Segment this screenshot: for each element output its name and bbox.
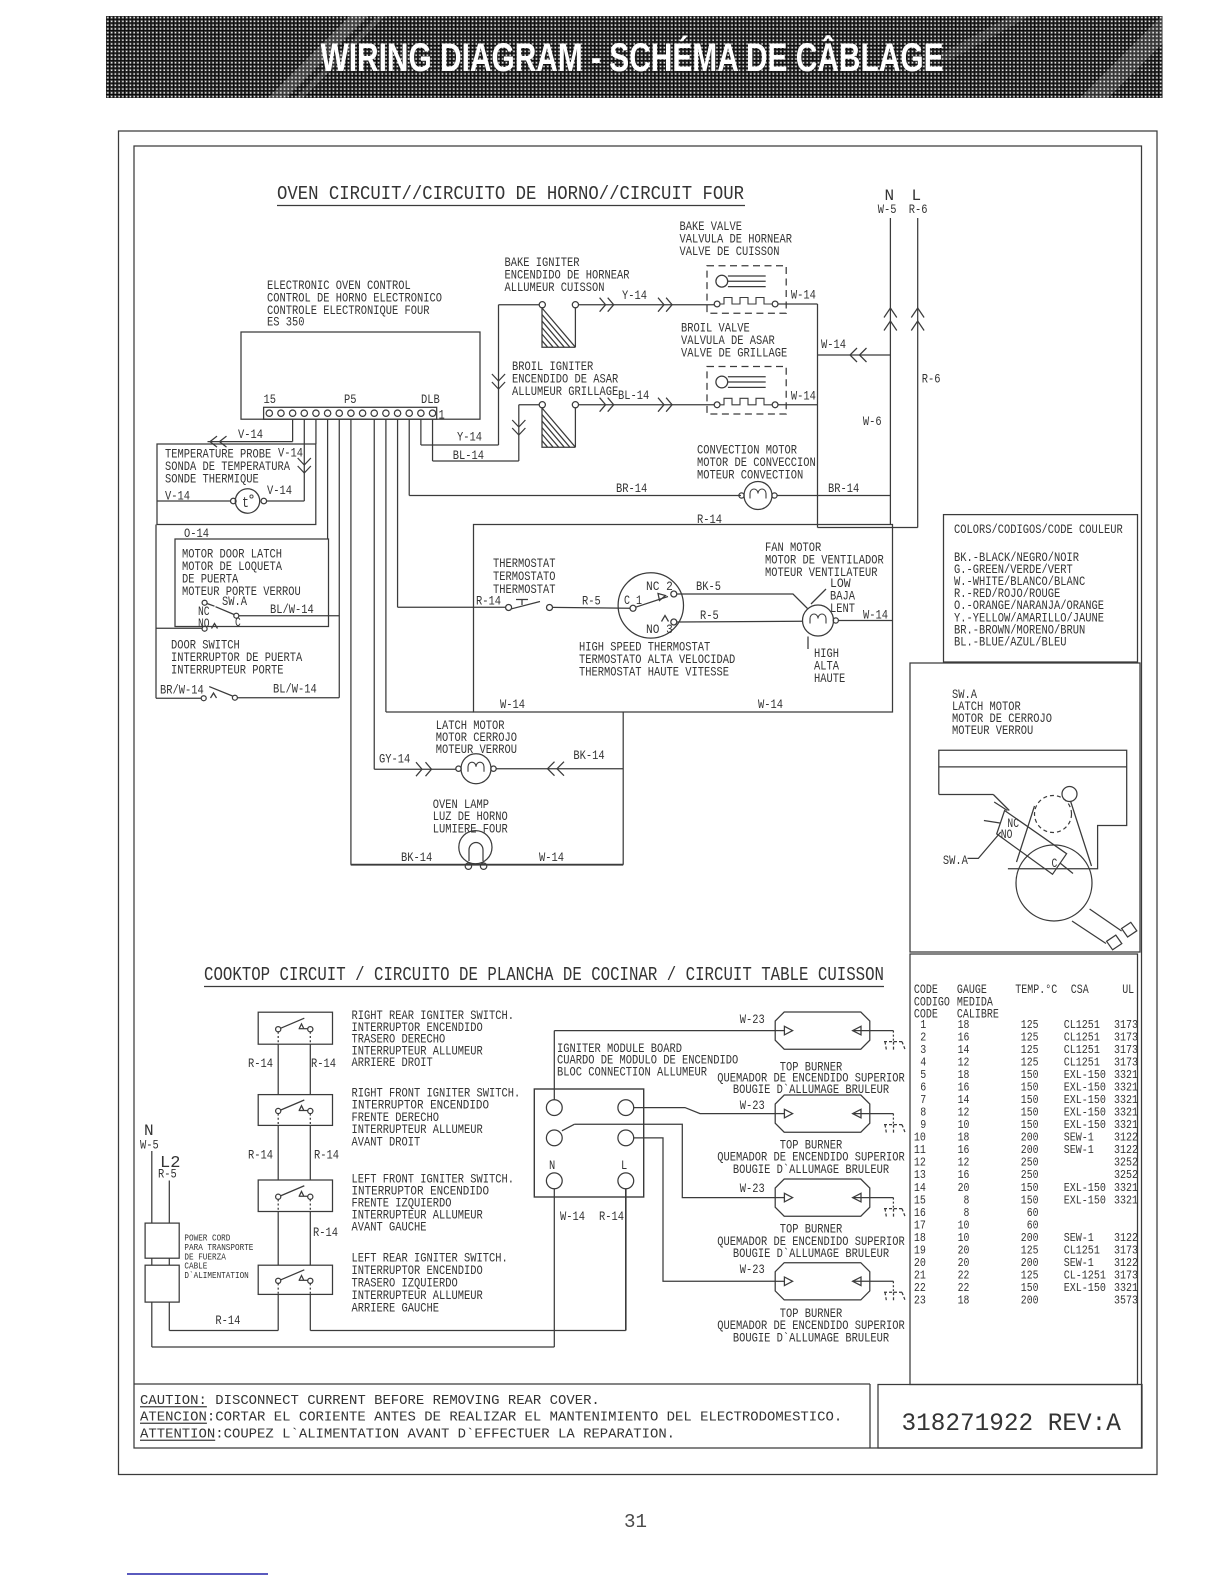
svg-text:R-14: R-14 [314,1149,339,1163]
svg-text:ARRIERE DROIT: ARRIERE DROIT [352,1056,434,1070]
svg-text:R-5: R-5 [158,1168,177,1182]
svg-text:D`ALIMENTATION: D`ALIMENTATION [184,1271,248,1281]
svg-text:VALVE DE CUISSON: VALVE DE CUISSON [680,245,780,259]
svg-text:SEW-1: SEW-1 [1064,1143,1094,1157]
svg-text:V-14: V-14 [238,428,263,442]
svg-text:SW.A: SW.A [943,854,968,868]
svg-text:MOTEUR CONVECTION: MOTEUR CONVECTION [697,469,803,483]
svg-text:R-14: R-14 [313,1226,338,1240]
svg-text:W-5: W-5 [878,203,897,217]
svg-text:R-14: R-14 [311,1057,336,1071]
svg-text:C 1: C 1 [624,594,642,608]
svg-text:THERMOSTAT: THERMOSTAT [493,557,556,571]
svg-text:W-6: W-6 [863,415,882,429]
svg-text:18: 18 [958,1293,970,1307]
svg-text:W-14: W-14 [539,851,564,865]
svg-text:CAUTION: DISCONNECT CURRENT BE: CAUTION: DISCONNECT CURRENT BEFORE REMOV… [140,1393,600,1409]
svg-text:SONDE THERMIQUE: SONDE THERMIQUE [165,473,259,487]
svg-text:BR-14: BR-14 [828,482,859,496]
svg-text:ALLUMEUR GRILLAGE: ALLUMEUR GRILLAGE [512,385,618,399]
svg-text:P5: P5 [344,393,357,407]
svg-text:R-14: R-14 [215,1314,240,1328]
svg-text:t: t [242,495,249,512]
svg-text:UL: UL [1122,983,1134,997]
svg-text:Y-14: Y-14 [622,289,647,303]
svg-text:W-14: W-14 [863,609,888,623]
svg-text:ES 350: ES 350 [267,316,305,330]
svg-text:R-6: R-6 [922,373,941,387]
svg-text:W-14: W-14 [500,698,525,712]
svg-text:V-14: V-14 [278,447,303,461]
svg-text:W-23: W-23 [740,1013,765,1027]
svg-text:TEMP.°C: TEMP.°C [1015,983,1057,997]
svg-text:ATENCION:CORTAR EL CORIENTE AN: ATENCION:CORTAR EL CORIENTE ANTES DE REA… [140,1410,842,1426]
svg-text:W-14: W-14 [791,390,816,404]
svg-text:W-23: W-23 [740,1182,765,1196]
svg-text:ATTENTION:COUPEZ L`ALIMENTATIO: ATTENTION:COUPEZ L`ALIMENTATION AVANT D`… [140,1427,675,1443]
svg-text:W-14: W-14 [758,698,783,712]
svg-text:BOUGIE D`ALLUMAGE BRULEUR: BOUGIE D`ALLUMAGE BRULEUR [733,1332,890,1346]
svg-text:W-5: W-5 [140,1138,159,1152]
svg-text:200: 200 [1021,1293,1039,1307]
svg-text:TOP BURNER: TOP BURNER [780,1222,843,1236]
svg-text:R-5: R-5 [700,609,719,623]
svg-text:MOTEUR VERROU: MOTEUR VERROU [436,743,517,757]
svg-text:R-6: R-6 [909,203,928,217]
svg-text:BK-5: BK-5 [696,580,721,594]
svg-text:BLOC CONNECTION ALLUMEUR: BLOC CONNECTION ALLUMEUR [557,1065,707,1079]
svg-text:BOUGIE D`ALLUMAGE BRULEUR: BOUGIE D`ALLUMAGE BRULEUR [733,1247,890,1261]
svg-text:ALLUMEUR CUISSON: ALLUMEUR CUISSON [505,281,605,295]
svg-text:EXL-150: EXL-150 [1064,1193,1106,1207]
svg-text:BL/W-14: BL/W-14 [270,603,314,617]
svg-text:CSA: CSA [1071,983,1089,997]
svg-text:SW.A: SW.A [222,595,247,609]
svg-text:BK-14: BK-14 [401,851,432,865]
svg-text:GY-14: GY-14 [379,753,410,767]
svg-text:INTERRUPTEUR PORTE: INTERRUPTEUR PORTE [171,664,284,678]
svg-text:3573: 3573 [1114,1293,1138,1307]
svg-text:R-5: R-5 [582,595,601,609]
svg-text:N: N [549,1159,555,1173]
svg-text:W-14: W-14 [821,338,846,352]
svg-text:R-14: R-14 [599,1210,624,1224]
svg-text:BOUGIE D`ALLUMAGE BRULEUR: BOUGIE D`ALLUMAGE BRULEUR [733,1163,890,1177]
svg-text:COOKTOP CIRCUIT / CIRCUITO DE: COOKTOP CIRCUIT / CIRCUITO DE PLANCHA DE… [204,964,884,986]
svg-text:MOTEUR VENTILATEUR: MOTEUR VENTILATEUR [765,566,878,580]
svg-text:BL/W-14: BL/W-14 [273,683,317,697]
svg-text:BL-14: BL-14 [618,389,649,403]
svg-text:318271922 REV:A: 318271922 REV:A [902,1409,1121,1438]
svg-text:DLB: DLB [421,393,440,407]
svg-text:WIRING DIAGRAM - SCHÉMA DE CÂB: WIRING DIAGRAM - SCHÉMA DE CÂBLAGE [321,34,944,80]
svg-text:C: C [235,616,241,630]
svg-text:COLORS/CODIGOS/CODE COULEUR: COLORS/CODIGOS/CODE COULEUR [954,523,1123,537]
svg-text:NC 2: NC 2 [646,580,673,594]
svg-text:Y-14: Y-14 [457,431,482,445]
svg-text:EXL-150: EXL-150 [1064,1281,1106,1295]
svg-text:W-14: W-14 [560,1210,585,1224]
svg-text:ARRIERE GAUCHE: ARRIERE GAUCHE [352,1302,440,1316]
svg-text:3321: 3321 [1114,1193,1138,1207]
svg-text:15: 15 [264,393,277,407]
svg-text:NO: NO [198,617,210,631]
svg-text:NO 3: NO 3 [646,623,673,637]
svg-text:W-14: W-14 [791,289,816,303]
svg-text:C: C [1052,857,1058,871]
svg-text:1: 1 [439,409,445,423]
svg-text:BL.-BLUE/AZUL/BLEU: BL.-BLUE/AZUL/BLEU [954,635,1067,649]
svg-text:W-23: W-23 [740,1263,765,1277]
svg-text:R-14: R-14 [248,1149,273,1163]
svg-text:AVANT DROIT: AVANT DROIT [352,1135,421,1149]
svg-text:MOTEUR VERROU: MOTEUR VERROU [952,724,1033,738]
svg-text:BR/W-14: BR/W-14 [160,684,204,698]
svg-text:23: 23 [914,1293,926,1307]
svg-text:V-14: V-14 [267,484,292,498]
svg-text:HAUTE: HAUTE [814,672,845,686]
svg-text:BK-14: BK-14 [573,749,604,763]
svg-text:THERMOSTAT HAUTE VITESSE: THERMOSTAT HAUTE VITESSE [579,666,729,680]
svg-text:LENT: LENT [830,602,855,616]
svg-text:TERMOSTATO: TERMOSTATO [493,570,556,584]
svg-text:W-23: W-23 [740,1099,765,1113]
svg-text:AVANT GAUCHE: AVANT GAUCHE [352,1221,427,1235]
svg-text:R-14: R-14 [476,595,501,609]
svg-text:NO: NO [1001,828,1013,842]
svg-text:BOUGIE D`ALLUMAGE BRULEUR: BOUGIE D`ALLUMAGE BRULEUR [733,1083,890,1097]
svg-text:OVEN CIRCUIT//CIRCUITO DE HORN: OVEN CIRCUIT//CIRCUITO DE HORNO//CIRCUIT… [277,183,744,205]
svg-text:BR-14: BR-14 [616,482,647,496]
svg-text:VALVE DE GRILLAGE: VALVE DE GRILLAGE [681,347,787,361]
svg-text:R-14: R-14 [248,1057,273,1071]
svg-text:L: L [621,1159,627,1173]
svg-text:BL-14: BL-14 [453,449,484,463]
svg-text:THERMOSTAT: THERMOSTAT [493,583,556,597]
svg-text:LUMIERE FOUR: LUMIERE FOUR [433,823,508,837]
svg-text:31: 31 [624,1511,647,1533]
svg-text:N: N [144,1122,154,1140]
